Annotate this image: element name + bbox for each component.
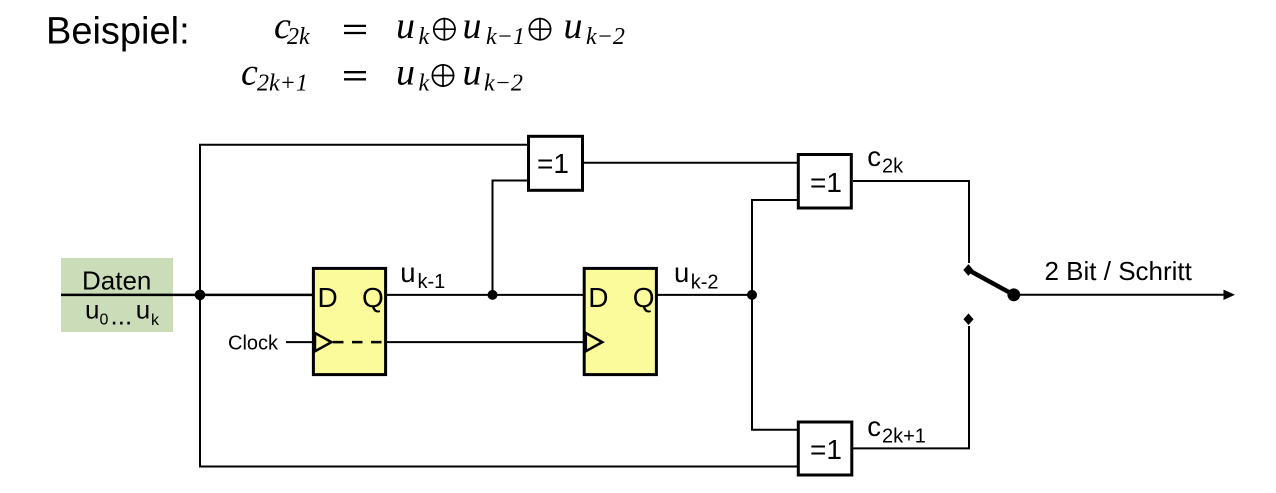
switch bottom contact (diamond) xyxy=(965,315,973,324)
svg-text:Q: Q xyxy=(362,282,384,313)
svg-text:c: c xyxy=(867,411,881,442)
svg-text:u: u xyxy=(463,5,482,47)
wire: main data input xyxy=(61,294,313,297)
svg-text:k−1: k−1 xyxy=(486,24,525,50)
equation row 1: c2k = uk xor uk-1 xor uk-2 xyxy=(274,5,625,50)
svg-text:u: u xyxy=(136,295,150,325)
wire: clock input xyxy=(286,341,312,343)
svg-text:u: u xyxy=(396,5,415,47)
label c2k xyxy=(867,141,904,177)
svg-text:2 Bit / Schritt: 2 Bit / Schritt xyxy=(1045,256,1193,286)
label uk-2 xyxy=(674,257,718,293)
node: input junction xyxy=(195,290,206,301)
arrowhead output xyxy=(1224,290,1236,300)
svg-text:D: D xyxy=(318,282,338,313)
label uk-1 xyxy=(400,257,445,293)
svg-text:0: 0 xyxy=(100,312,109,329)
svg-text:=1: =1 xyxy=(810,434,842,465)
label u0...uk xyxy=(85,295,160,331)
wire: FF1 Q to FF2 D xyxy=(387,294,584,296)
input box Daten (green) xyxy=(61,258,173,332)
svg-text:2k+1: 2k+1 xyxy=(882,425,926,447)
svg-text:Beispiel:: Beispiel: xyxy=(46,11,190,53)
svg-text:k: k xyxy=(419,24,430,50)
switch top contact (diamond) xyxy=(964,265,972,274)
wire: FF2 Q to junction xyxy=(657,294,752,296)
svg-text:u: u xyxy=(564,5,583,47)
svg-text:D: D xyxy=(588,282,608,313)
svg-text:...: ... xyxy=(111,301,133,331)
svg-text:u: u xyxy=(396,51,415,93)
flip-flop FF2 xyxy=(584,268,656,374)
switch pole (ball) xyxy=(1007,288,1020,301)
wire: uk-2 up to XOR2 xyxy=(752,200,797,295)
svg-text:2k: 2k xyxy=(882,155,904,177)
svg-text:k: k xyxy=(151,312,160,329)
node: uk-2 junction xyxy=(747,290,757,300)
svg-text:Daten: Daten xyxy=(82,265,151,295)
svg-text:2k: 2k xyxy=(287,24,310,50)
wire: XOR3 out to switch bottom xyxy=(853,326,969,448)
clock triangle FF2 xyxy=(586,333,603,351)
svg-text:u: u xyxy=(85,295,99,325)
XOR gate XOR1 xyxy=(529,136,583,190)
clock triangle FF1 xyxy=(315,333,332,351)
XOR gate XOR2 xyxy=(798,155,851,209)
svg-text:u: u xyxy=(400,257,415,288)
svg-text:k-1: k-1 xyxy=(418,271,446,293)
wire: top feed to XOR1 xyxy=(199,144,528,146)
svg-text:=1: =1 xyxy=(537,148,569,179)
svg-text:c: c xyxy=(867,141,881,172)
wire: left vertical feed xyxy=(199,145,201,467)
switch lever xyxy=(968,270,1013,295)
wire: uk-2 down to XOR3 xyxy=(752,295,797,430)
svg-text:2k+1: 2k+1 xyxy=(257,71,308,97)
svg-text:=1: =1 xyxy=(810,167,842,198)
wire: clock FF1 to FF2 xyxy=(387,341,584,343)
svg-text:k-2: k-2 xyxy=(691,271,719,293)
svg-text:k−2: k−2 xyxy=(484,71,523,97)
wire: uk-1 up to XOR1 xyxy=(493,181,529,295)
svg-text:k−2: k−2 xyxy=(586,24,625,50)
wire: output with arrow xyxy=(1014,294,1224,296)
node: uk-1 junction xyxy=(488,290,498,300)
svg-text:Q: Q xyxy=(633,282,655,313)
wire: clock dashed inside FF1 xyxy=(333,341,384,344)
svg-text:c: c xyxy=(241,51,258,93)
wire: bottom feed to XOR3 xyxy=(199,466,798,468)
wire: XOR1 out to XOR2 xyxy=(584,162,797,164)
XOR gate XOR3 xyxy=(798,422,852,475)
wire: XOR2 out to switch top xyxy=(853,181,969,263)
equation row 2: c2k+1 = uk xor uk-2 xyxy=(241,51,523,96)
flip-flop FF1 xyxy=(313,268,385,374)
svg-text:u: u xyxy=(463,51,482,93)
svg-text:Clock: Clock xyxy=(228,333,279,355)
label c2k+1 xyxy=(867,411,926,447)
svg-text:u: u xyxy=(674,257,689,288)
svg-text:k: k xyxy=(419,71,430,97)
